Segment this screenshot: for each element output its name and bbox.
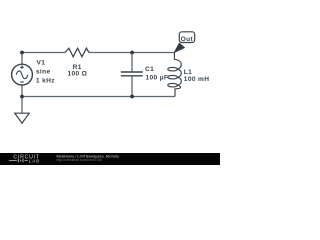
capacitor C1 xyxy=(121,72,143,76)
inductor L1 xyxy=(168,53,181,97)
svg-text:100 Ω: 100 Ω xyxy=(67,71,87,78)
node A junction dot (V1 top) xyxy=(20,51,24,55)
wire: source V1 top stem xyxy=(21,53,23,65)
wire: capacitor C1 bottom stem xyxy=(131,76,133,97)
resistor R1 xyxy=(65,48,89,57)
svg-text:LAB: LAB xyxy=(29,158,40,163)
svg-text:sine: sine xyxy=(36,69,51,76)
Out flag pointer xyxy=(174,43,185,53)
wire: ground stem xyxy=(21,97,23,114)
CircuitLab logo lower line with LAB xyxy=(9,159,28,162)
svg-text:L1: L1 xyxy=(184,69,192,76)
wire top: resistor R1 to inductor branch xyxy=(89,52,174,54)
ground xyxy=(15,113,29,123)
svg-text:100 µF: 100 µF xyxy=(146,75,169,82)
wire bottom rail xyxy=(22,96,175,98)
svg-text:1 kHz: 1 kHz xyxy=(36,77,55,84)
junction dot C1 top xyxy=(130,51,134,55)
svg-text:Out: Out xyxy=(181,36,194,43)
Out flag box xyxy=(179,32,194,43)
svg-text:100 mH: 100 mH xyxy=(184,76,210,83)
footer bar xyxy=(0,153,220,165)
svg-text:C1: C1 xyxy=(145,66,154,73)
wire: capacitor C1 top stem xyxy=(131,53,133,73)
wire: source V1 bottom stem xyxy=(21,85,23,97)
svg-text:V1: V1 xyxy=(37,59,46,66)
junction dot ground node xyxy=(20,95,24,99)
junction dot C1 bottom xyxy=(130,95,134,99)
svg-text:http://circuitlab.com/cmw73r8: http://circuitlab.com/cmw73r8 xyxy=(56,158,101,162)
voltage source V1 xyxy=(12,64,33,85)
wire top: node A to resistor R1 xyxy=(22,52,65,54)
